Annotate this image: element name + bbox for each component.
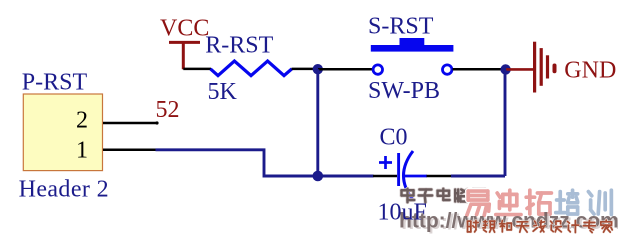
resistor R1 pin 1 (left) [183,68,211,71]
watermark slogan (9 small CJK glyphs) [468,220,613,232]
wire switch right pin to node B [453,68,502,71]
wire pin 1 to node C (L-shaped) [156,150,319,176]
capacitor C0 right (curved) plate [404,151,414,200]
capacitor C0 pin 2 (right, black) [427,175,452,178]
power VCC bar symbol [169,42,200,69]
node A junction dot (resistor/switch/cap net) [313,64,323,74]
pin 1 stub wire [103,149,156,152]
ground stub wire [506,68,533,71]
switch S1 left terminal circle [373,65,382,74]
svg-text:GND: GND [564,58,616,84]
pin 2 stub wire [103,122,157,125]
resistor R1 (R-RST) zigzag [211,61,292,76]
node C junction dot (bottom) [313,171,324,182]
switch S1 button bump [400,38,425,45]
capacitor C0 curved-plate lead (blue) [404,175,427,178]
switch S1 body bar [371,45,454,52]
svg-text:2: 2 [76,108,88,134]
capacitor C0 plus sign [379,156,392,169]
svg-text:Header 2: Header 2 [19,176,109,202]
svg-text:P-RST: P-RST [22,69,88,95]
svg-text:10uF: 10uF [378,199,427,225]
capacitor C0 pin 1 (left, black) [373,175,397,178]
capacitor C0 left (straight) plate [397,153,400,186]
svg-text:SW-PB: SW-PB [368,78,440,104]
svg-text:1: 1 [76,138,88,164]
resistor R1 pin 2 (right) [292,68,316,71]
wire node A down to node C [316,69,319,176]
svg-text:S-RST: S-RST [368,14,434,40]
svg-text:52: 52 [156,97,180,123]
watermark gray site name (5 CJK glyphs) [402,189,486,203]
wire right riser up to node B [504,70,507,177]
switch S1 right terminal circle [443,65,452,74]
node B junction dot (switch/cap/gnd) [500,64,510,74]
wire node C to capacitor [318,175,374,178]
watermark big brand characters (salmon+blue CJK) [467,190,612,215]
svg-text:C0: C0 [380,125,408,151]
wire node A to switch left pin [318,68,372,71]
connector P1 body (yellow box) [23,94,102,171]
svg-text:VCC: VCC [160,16,209,42]
ground symbol bars [535,42,555,93]
wire capacitor to right riser [451,175,505,178]
svg-text:R-RST: R-RST [205,33,273,59]
svg-text:5K: 5K [208,79,238,105]
